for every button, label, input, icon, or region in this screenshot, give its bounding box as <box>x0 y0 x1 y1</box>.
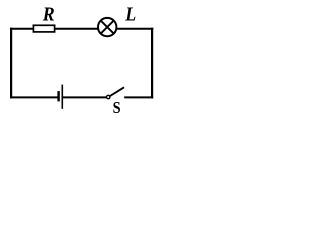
wire: bottom side, switch to right corner <box>124 96 153 98</box>
wire: bottom side, battery to switch <box>63 96 106 98</box>
lamp L <box>98 18 116 36</box>
resistor R <box>33 25 54 32</box>
wire: right vertical side <box>151 28 153 99</box>
wire: top side, corner to resistor <box>10 28 34 30</box>
svg-text:L: L <box>124 4 136 25</box>
wire: top side, lamp to right corner <box>117 28 154 30</box>
svg-text:R: R <box>42 3 55 25</box>
svg-text:S: S <box>113 98 121 117</box>
wire: bottom side, left corner to battery <box>10 96 58 98</box>
wire: top side, resistor to lamp <box>55 28 98 30</box>
wire: left vertical side <box>10 28 12 99</box>
battery cell <box>59 85 63 109</box>
switch S <box>107 87 125 98</box>
